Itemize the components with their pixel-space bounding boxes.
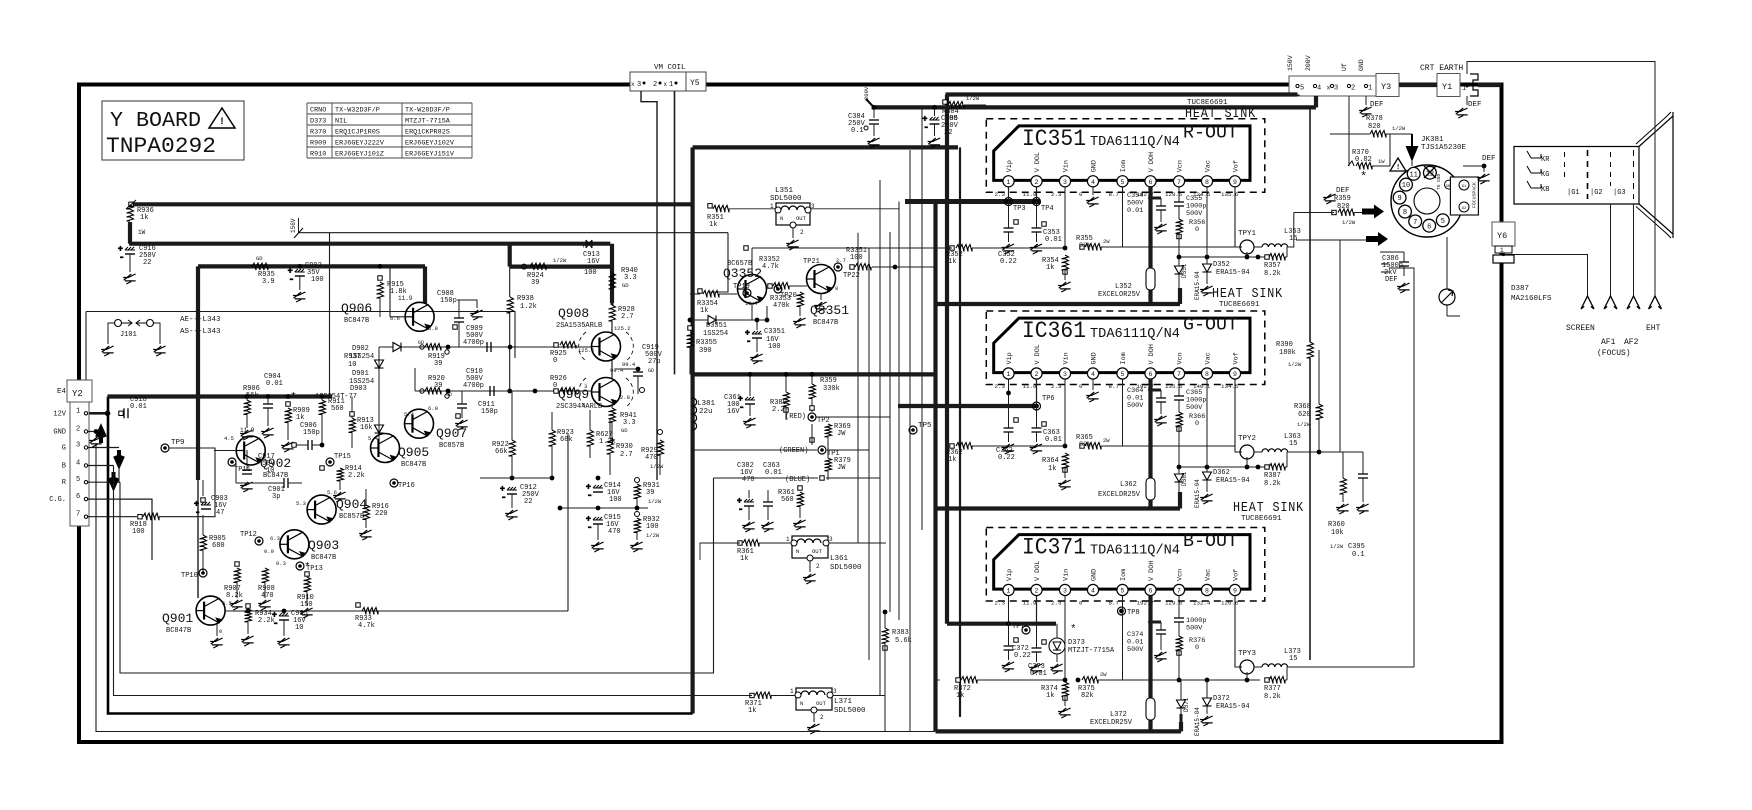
- svg-text:MA2160LFS: MA2160LFS: [1511, 295, 1552, 303]
- svg-text:Vac: Vac: [1205, 352, 1213, 364]
- svg-text:GND: GND: [53, 429, 66, 437]
- svg-text:ERA15-04: ERA15-04: [1194, 479, 1201, 508]
- resistor R383: [882, 610, 912, 732]
- node IC351 junction row: [1177, 255, 1267, 260]
- wire screen line: [1505, 255, 1588, 297]
- node KR cathode: [1527, 151, 1550, 164]
- svg-text:IC361: IC361: [1022, 318, 1086, 344]
- svg-text:3: 3: [1334, 85, 1338, 93]
- svg-text:TX-W28D3F/P: TX-W28D3F/P: [405, 107, 450, 115]
- transistor Q909: [556, 378, 633, 412]
- svg-text:9: 9: [1233, 179, 1237, 186]
- svg-text:Iom: Iom: [1120, 160, 1128, 172]
- svg-text:129.5: 129.5: [1165, 191, 1183, 198]
- wire 266 bus left: [198, 264, 425, 268]
- svg-text:L372: L372: [1110, 711, 1127, 719]
- svg-text:1/2W: 1/2W: [646, 532, 660, 539]
- svg-text:1k: 1k: [748, 707, 756, 715]
- connector Y5 VM COIL: [630, 64, 706, 91]
- svg-text:Q908: Q908: [558, 306, 589, 321]
- svg-text:3p: 3p: [272, 493, 280, 501]
- node signal arrow down G: [115, 450, 123, 465]
- capacitor C906: [292, 422, 322, 450]
- capacitor C355: [1174, 195, 1206, 219]
- svg-text:10: 10: [1402, 182, 1410, 190]
- inductor L373: [1254, 648, 1301, 667]
- capacitor C374: [1127, 620, 1167, 662]
- svg-text:TP5: TP5: [918, 422, 932, 430]
- svg-text:135.5: 135.5: [1165, 383, 1183, 390]
- svg-text:R357: R357: [1264, 262, 1281, 270]
- wire Y2 pin5 line: [88, 481, 120, 483]
- wire nest tp9 drop: [118, 463, 120, 482]
- svg-text:R377: R377: [1264, 685, 1281, 693]
- svg-text:820: 820: [1368, 123, 1381, 131]
- wire bottom thick right: [936, 722, 1182, 731]
- inductor L371: [790, 688, 866, 734]
- resistor R627: [587, 410, 616, 458]
- svg-text:TDA6111Q/N4: TDA6111Q/N4: [1090, 134, 1180, 150]
- svg-text:2.3: 2.3: [1051, 191, 1062, 198]
- transistor Q901: [162, 596, 232, 648]
- inductor L361: [786, 536, 862, 584]
- wire IC351 pin6 bus: [1148, 187, 1152, 304]
- resistor R354: [1042, 255, 1071, 292]
- svg-text:5.6: 5.6: [327, 489, 337, 496]
- resistor R365: [1076, 434, 1235, 450]
- svg-text:5.4: 5.4: [404, 411, 415, 418]
- svg-text:3: 3: [1063, 179, 1067, 186]
- svg-text:125.2: 125.2: [578, 347, 595, 354]
- svg-text:R368: R368: [1294, 403, 1311, 411]
- svg-text:(BLUE): (BLUE): [785, 476, 810, 484]
- op-amp IC351 TDA6111Q/N4 R-OUT body: [986, 119, 1265, 193]
- svg-text:7: 7: [1177, 179, 1181, 186]
- svg-text:BC857B: BC857B: [439, 442, 464, 450]
- svg-text:HEAT SINK: HEAT SINK: [1185, 106, 1256, 122]
- svg-text:0: 0: [219, 628, 222, 635]
- svg-text:Iom: Iom: [1120, 569, 1128, 581]
- svg-text:MTZJT-7715A: MTZJT-7715A: [1068, 647, 1115, 655]
- svg-text:4.5: 4.5: [224, 435, 234, 442]
- svg-text:1k: 1k: [709, 221, 717, 229]
- node IC361 junction row: [1177, 465, 1267, 470]
- svg-text:2.2k: 2.2k: [348, 472, 365, 480]
- node G4 grid: [1633, 150, 1635, 199]
- svg-text:6: 6: [1149, 371, 1153, 378]
- svg-text:11.9: 11.9: [1023, 600, 1037, 607]
- resistor R362: [946, 443, 1067, 465]
- svg-text:82k: 82k: [1079, 441, 1091, 449]
- svg-text:V DOL: V DOL: [1034, 152, 1042, 172]
- svg-text:R387: R387: [1264, 472, 1281, 480]
- wire bus x612 drop: [610, 244, 614, 303]
- svg-text:D903: D903: [350, 385, 367, 393]
- svg-text:126.6: 126.6: [1221, 600, 1239, 607]
- svg-text:SDL5000: SDL5000: [830, 564, 862, 572]
- svg-text:N: N: [800, 700, 803, 707]
- svg-text:3: 3: [1063, 588, 1067, 595]
- svg-text:Vcn: Vcn: [1177, 352, 1185, 364]
- svg-text:4: 4: [76, 460, 80, 468]
- resistor R380: [770, 372, 790, 420]
- wire nest y673: [120, 478, 714, 673]
- svg-text:Q903: Q903: [308, 538, 339, 553]
- svg-text:100: 100: [945, 115, 958, 123]
- node AF1 arrow: [1601, 296, 1617, 347]
- svg-text:82k: 82k: [1079, 242, 1091, 250]
- svg-text:150p: 150p: [440, 297, 457, 305]
- svg-text:R909: R909: [310, 140, 326, 148]
- svg-text:TUC8E6691: TUC8E6691: [1241, 515, 1282, 523]
- svg-text:1: 1: [76, 407, 80, 415]
- capacitor C352: [998, 202, 1018, 267]
- svg-text:D901: D901: [352, 370, 369, 378]
- svg-text:DEF: DEF: [1468, 101, 1482, 109]
- resistor R359: [1294, 195, 1362, 226]
- svg-text:100: 100: [646, 523, 659, 531]
- svg-text:135.6: 135.6: [1221, 191, 1239, 198]
- svg-text:EHT: EHT: [1646, 324, 1661, 333]
- svg-text:8: 8: [1403, 209, 1407, 217]
- svg-text:6.3: 6.3: [270, 535, 280, 542]
- svg-text:R364: R364: [1042, 457, 1059, 465]
- capacitor C901: [236, 462, 302, 501]
- svg-text:39: 39: [434, 360, 442, 368]
- wire IC371 pin6 bus: [1123, 596, 1151, 732]
- svg-text:Uf: Uf: [1341, 63, 1348, 71]
- svg-text:Vin: Vin: [1063, 569, 1071, 581]
- svg-text:99.4: 99.4: [610, 367, 624, 374]
- svg-text:1/2W: 1/2W: [1288, 361, 1302, 368]
- wire nest y695: [114, 466, 753, 696]
- resistor R908: [258, 568, 275, 610]
- op-amp IC371 TDA6111Q/N4 B-OUT body: [986, 528, 1265, 602]
- svg-text:D362: D362: [1213, 469, 1230, 477]
- node IC371 pins 1-9: [995, 561, 1241, 607]
- wire TPY1 to socket: [1309, 240, 1311, 262]
- capacitor C364: [1127, 387, 1167, 426]
- svg-text:TPY1: TPY1: [1238, 230, 1257, 238]
- resistor R361: [778, 486, 806, 530]
- resistor R351: [707, 204, 899, 229]
- svg-text:J101: J101: [120, 331, 137, 339]
- node IC361 pin4 gnd: [1086, 379, 1099, 402]
- resistor R368: [1294, 350, 1323, 454]
- svg-text:8.7: 8.7: [1109, 600, 1120, 607]
- svg-text:6: 6: [1149, 179, 1153, 186]
- svg-text:V DOH: V DOH: [1148, 561, 1156, 581]
- svg-text:TJS1A5230E: TJS1A5230E: [1421, 144, 1467, 152]
- node G2 grid: [1588, 150, 1603, 199]
- svg-text:134.5: 134.5: [1221, 383, 1239, 390]
- svg-text:L362: L362: [1120, 481, 1137, 489]
- wire bundle x869: [868, 248, 870, 660]
- node G3 grid: [1611, 152, 1626, 197]
- node TP8: [1118, 607, 1140, 617]
- op-amp IC361 TDA6111Q/N4 G-OUT body: [986, 311, 1265, 385]
- resistor R924: [522, 257, 567, 287]
- svg-text:3: 3: [76, 442, 80, 450]
- svg-text:R938: R938: [517, 295, 534, 303]
- svg-text:66k: 66k: [495, 448, 508, 456]
- svg-text:1SS254: 1SS254: [703, 330, 728, 338]
- svg-text:2: 2: [820, 714, 824, 721]
- svg-text:ERJ6GEYJ102V: ERJ6GEYJ102V: [405, 140, 455, 148]
- svg-text:129.5: 129.5: [1165, 600, 1183, 607]
- svg-text:3.9: 3.9: [262, 278, 275, 286]
- svg-text:*: *: [1360, 170, 1367, 184]
- svg-text:GD: GD: [256, 255, 263, 262]
- svg-text:R: R: [62, 479, 67, 487]
- svg-text:TDA6111Q/N4: TDA6111Q/N4: [1090, 543, 1180, 559]
- svg-text:150: 150: [300, 601, 313, 609]
- svg-text:132.4: 132.4: [1193, 600, 1211, 607]
- svg-text:11.9: 11.9: [240, 427, 255, 434]
- svg-text:15: 15: [1289, 235, 1297, 243]
- svg-text:Vip: Vip: [1006, 352, 1014, 364]
- svg-text:100: 100: [311, 276, 324, 284]
- svg-text:C.G.: C.G.: [49, 496, 66, 504]
- svg-text:6: 6: [1427, 223, 1431, 231]
- svg-text:2W: 2W: [1100, 671, 1107, 678]
- svg-text:V DOL: V DOL: [1034, 344, 1042, 364]
- svg-text:2SA1535ARLB: 2SA1535ARLB: [556, 322, 602, 330]
- capacitor C372: [1002, 624, 1031, 672]
- svg-text:16k: 16k: [360, 424, 373, 432]
- node heat sink IC351 top: [1185, 99, 1256, 122]
- capacitor C916: [118, 245, 157, 284]
- svg-text:4: 4: [1091, 371, 1095, 378]
- node TPY1: [1238, 230, 1257, 257]
- svg-text:Q901: Q901: [162, 611, 193, 626]
- wire IC361 input bus: [898, 404, 1037, 408]
- resistor R3354: [690, 289, 737, 315]
- svg-text:|G3: |G3: [1613, 189, 1626, 197]
- node RED tap: [785, 406, 890, 425]
- svg-text:BC847B: BC847B: [401, 461, 426, 469]
- node IC351 pin4 gnd: [1086, 187, 1099, 207]
- capacitor C385: [923, 105, 959, 148]
- svg-text:BC847B: BC847B: [311, 554, 336, 562]
- svg-text:G-OUT: G-OUT: [1183, 316, 1238, 336]
- node warning triangle 2: [1390, 158, 1406, 172]
- node IC351 pins 1-9: [995, 152, 1241, 198]
- diode D3351: [688, 306, 770, 338]
- svg-text:0.01: 0.01: [266, 380, 283, 388]
- wire bus x947 vertical: [945, 95, 949, 624]
- svg-text:ERQ1CJP1R0S: ERQ1CJP1R0S: [335, 129, 380, 137]
- svg-text:TPY2: TPY2: [1238, 435, 1256, 443]
- connector Y6: [1492, 222, 1515, 263]
- resistor R907: [224, 562, 243, 610]
- svg-text:Vip: Vip: [1006, 569, 1014, 581]
- svg-text:N: N: [780, 215, 783, 222]
- svg-text:2.3: 2.3: [1051, 600, 1062, 607]
- svg-text:BC847B: BC847B: [813, 319, 838, 327]
- svg-text:6: 6: [76, 493, 80, 501]
- svg-text:8.2k: 8.2k: [1264, 693, 1281, 701]
- svg-text:-: -: [746, 337, 751, 347]
- capacitor C915: [586, 514, 621, 552]
- wire bundle x960: [959, 147, 961, 717]
- capacitor C375: [1174, 617, 1206, 636]
- node TP9: [159, 439, 215, 517]
- resistor R940: [609, 267, 638, 289]
- svg-text:R910: R910: [310, 151, 326, 159]
- svg-text:EXCELDR25V: EXCELDR25V: [1090, 719, 1133, 727]
- wire C916 riser: [128, 222, 132, 244]
- svg-text:x: x: [631, 81, 635, 88]
- svg-text:B-OUT: B-OUT: [1183, 532, 1238, 552]
- wire IC351 out bus: [936, 288, 1181, 304]
- resistor R374: [1041, 596, 1071, 718]
- wire Y2 pin1 stub: [88, 411, 110, 417]
- svg-text:500V: 500V: [1186, 404, 1203, 412]
- svg-text:-: -: [924, 123, 929, 133]
- svg-text:|G1: |G1: [1567, 189, 1580, 197]
- svg-text:0: 0: [1079, 600, 1083, 607]
- svg-text:2.3: 2.3: [995, 191, 1006, 198]
- transistor Q902: [224, 427, 291, 480]
- svg-text:5.3: 5.3: [296, 500, 306, 507]
- wire IC351 pin3 drop: [1064, 187, 1066, 248]
- svg-text:15: 15: [1289, 655, 1297, 663]
- resistor R372: [936, 677, 1066, 701]
- resistor R360: [1319, 452, 1369, 559]
- resistor R369: [825, 412, 851, 438]
- svg-text:+: +: [581, 242, 586, 251]
- wire Y2 pin4 line: [88, 465, 114, 467]
- svg-text:0.01: 0.01: [1127, 207, 1143, 215]
- diode D352: [1194, 187, 1250, 300]
- svg-text:1/2W: 1/2W: [966, 95, 980, 102]
- node TP3: [1005, 187, 1026, 213]
- svg-text:8: 8: [1205, 371, 1209, 378]
- svg-text:GD: GD: [648, 368, 654, 374]
- resistor R357: [1264, 247, 1287, 278]
- resistor R3355: [687, 326, 718, 375]
- resistor R366: [1176, 379, 1206, 467]
- connector Y1 CRT EARTH: [1420, 64, 1478, 97]
- wire IC361 pin3 drop: [1064, 379, 1066, 446]
- node TP5: [909, 422, 932, 434]
- resistor R390: [1276, 107, 1314, 660]
- inductor L372: [1090, 698, 1155, 727]
- svg-text:0.01: 0.01: [1045, 436, 1062, 444]
- svg-text:1k: 1k: [948, 456, 956, 464]
- capacitor C903: [194, 480, 228, 518]
- node TP15: [320, 453, 351, 470]
- svg-text:0: 0: [1079, 383, 1083, 390]
- resistor R925: [550, 342, 595, 366]
- wire bundle x858: [858, 233, 886, 543]
- svg-text:1/2W: 1/2W: [1392, 125, 1406, 132]
- svg-text:TP10: TP10: [181, 572, 198, 580]
- svg-text:2: 2: [653, 81, 657, 89]
- svg-text:VM COIL: VM COIL: [654, 64, 686, 72]
- transistor Q905: [368, 434, 429, 470]
- svg-text:AE---L343: AE---L343: [180, 316, 221, 324]
- svg-text:D902: D902: [352, 345, 369, 353]
- svg-text:Y5: Y5: [690, 79, 700, 88]
- svg-text:5.4: 5.4: [368, 435, 379, 442]
- svg-text:8: 8: [1205, 588, 1209, 595]
- wire RGB line r347: [410, 346, 591, 348]
- svg-text:125.2: 125.2: [614, 325, 631, 332]
- svg-text:0.9: 0.9: [264, 548, 274, 555]
- resistor R918: [130, 513, 159, 536]
- resistor R905: [200, 515, 226, 573]
- svg-text:1k: 1k: [296, 414, 304, 422]
- resistor R361b: [700, 540, 886, 564]
- svg-text:G: G: [62, 445, 66, 453]
- svg-text:10: 10: [348, 361, 356, 369]
- svg-text:1k: 1k: [1046, 692, 1054, 700]
- resistor R932: [630, 512, 660, 553]
- svg-text:JK381: JK381: [1421, 136, 1444, 144]
- node IC361 pins 1-9: [995, 344, 1241, 390]
- svg-text:2.8: 2.8: [620, 394, 630, 401]
- svg-text:47: 47: [216, 509, 224, 517]
- svg-text:22u: 22u: [699, 408, 713, 416]
- wire EHT line: [1467, 62, 1655, 297]
- capacitor C918: [119, 396, 147, 418]
- svg-text:8.2k: 8.2k: [1264, 270, 1281, 278]
- svg-text:11.9: 11.9: [1023, 383, 1037, 390]
- svg-text:5: 5: [1121, 371, 1125, 378]
- wire bundle x922: [921, 107, 923, 530]
- inductor L363: [1254, 433, 1340, 452]
- svg-text:1: 1: [1007, 179, 1011, 186]
- wire mid bus y374: [693, 372, 936, 376]
- svg-text:G2: G2: [1462, 207, 1467, 211]
- svg-text:2.3: 2.3: [1051, 383, 1062, 390]
- svg-text:4: 4: [1091, 179, 1095, 186]
- svg-text:4700p: 4700p: [463, 339, 484, 347]
- svg-text:0.1: 0.1: [851, 127, 864, 135]
- svg-text:470: 470: [608, 528, 621, 536]
- svg-text:1.2k: 1.2k: [520, 303, 537, 311]
- wire IC361 out bus: [936, 492, 1181, 509]
- svg-text:TP15: TP15: [334, 453, 351, 461]
- wire bottom thick return: [108, 397, 693, 714]
- svg-text:C395: C395: [1348, 543, 1365, 551]
- wire arrow pin7b: [1296, 232, 1388, 247]
- svg-text:ERA15-04: ERA15-04: [1194, 271, 1201, 300]
- connector Y3 board-in strip: [1287, 55, 1399, 96]
- svg-text:-: -: [501, 493, 506, 503]
- capacitor C361: [724, 372, 756, 428]
- svg-text:500V: 500V: [1186, 210, 1203, 218]
- svg-text:IC371: IC371: [1022, 535, 1086, 561]
- svg-text:0.01: 0.01: [765, 469, 782, 477]
- svg-text:L352: L352: [1115, 283, 1132, 291]
- wire TPY3 to socket: [1381, 264, 1414, 667]
- svg-text:5: 5: [1441, 218, 1445, 226]
- svg-text:L371: L371: [834, 698, 853, 706]
- svg-text:-: -: [587, 523, 592, 533]
- svg-text:560: 560: [331, 405, 344, 413]
- resistor R926: [550, 375, 587, 395]
- svg-text:200V: 200V: [1305, 55, 1312, 71]
- svg-text:7: 7: [1177, 588, 1181, 595]
- svg-text:Y3: Y3: [1381, 82, 1391, 92]
- capacitor C365: [1174, 389, 1206, 412]
- svg-text:2: 2: [1035, 179, 1039, 186]
- svg-text:Q906: Q906: [341, 301, 372, 316]
- svg-text:R370: R370: [310, 129, 326, 137]
